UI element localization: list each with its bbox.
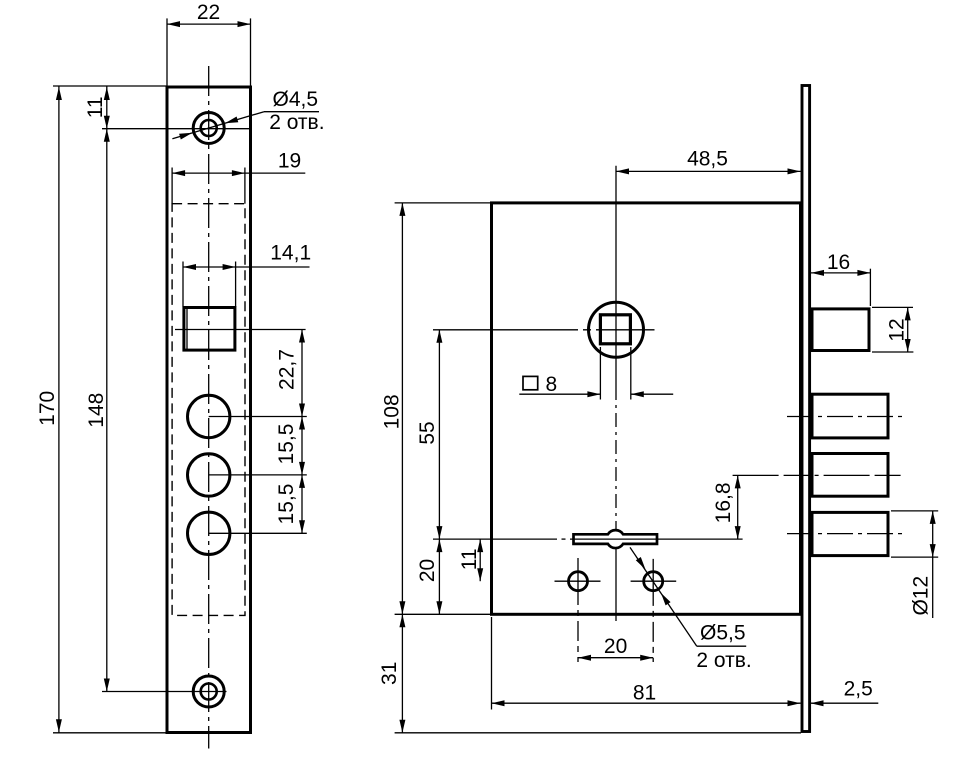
dim 81 line	[492, 702, 801, 704]
dim diameter 12 extension lines	[891, 510, 938, 512]
latch bevel line	[186, 308, 188, 350]
dim 19 extension lines	[171, 168, 173, 204]
svg-text:31: 31	[378, 662, 401, 685]
svg-text:Ø5,5: Ø5,5	[700, 622, 746, 645]
dim 170 bottom extension	[53, 732, 167, 734]
bolt hole 2 centerline	[209, 474, 307, 476]
body bottom extension	[395, 613, 490, 615]
dim 170 top extension	[53, 85, 167, 87]
spindle hub circle	[589, 302, 644, 357]
svg-text:20: 20	[604, 635, 627, 658]
top hole horizontal centerline	[102, 128, 251, 130]
dim 148 arrows	[104, 129, 110, 692]
latch bolt side view	[812, 309, 869, 351]
latch cutout square	[184, 308, 235, 351]
deadbolt 1	[812, 394, 888, 438]
svg-text:16: 16	[827, 251, 850, 274]
deadbolt 2	[812, 454, 888, 497]
dim 20 bottom line	[578, 657, 653, 659]
svg-text:22: 22	[197, 1, 220, 24]
deadbolt 3 centerline	[787, 533, 903, 535]
keyhole slot	[574, 530, 658, 548]
square hole extension lines	[599, 347, 601, 400]
vertical centerline of faceplate	[208, 66, 210, 749]
svg-text:2,5: 2,5	[844, 677, 873, 700]
bolt hole circle 2	[188, 454, 230, 496]
dim 31 line	[401, 614, 403, 733]
dim chain 22,7 / 15,5 / 15,5 line	[301, 330, 303, 534]
bolt hole circle 3	[188, 512, 230, 554]
dim 19 line	[172, 172, 305, 174]
dim 55 / 20 shared line	[438, 330, 440, 615]
faceplate outline	[167, 87, 251, 733]
dim 11 / 148 shared dimension line	[106, 86, 108, 692]
svg-text:48,5: 48,5	[687, 148, 728, 171]
dim 16 right extension	[869, 269, 871, 306]
bottom screw hole inner	[201, 684, 217, 700]
dim 14,1 extension lines	[182, 262, 184, 307]
dim 48,5 line	[616, 170, 801, 172]
svg-text:19: 19	[278, 149, 301, 172]
svg-text:2 отв.: 2 отв.	[696, 649, 751, 672]
svg-text:55: 55	[416, 421, 439, 444]
svg-text:Ø4,5: Ø4,5	[273, 88, 319, 111]
top screw hole inner	[201, 120, 217, 136]
dim 16,8 line	[737, 475, 739, 539]
svg-text:11: 11	[458, 548, 481, 570]
top screw hole outer	[193, 113, 224, 144]
svg-text:81: 81	[633, 682, 656, 705]
spindle square hole	[600, 315, 630, 344]
dim 22 extension lines	[166, 18, 168, 85]
dim 81 left extension	[491, 617, 493, 710]
overall bottom extension line	[395, 732, 801, 734]
dim 11 arrows	[104, 87, 110, 129]
dim 108 line	[401, 203, 403, 614]
dim 170 line	[58, 86, 60, 733]
svg-text:8: 8	[546, 373, 558, 396]
leader line diameter 4,5	[172, 112, 264, 139]
left screw hole cross lines	[555, 580, 601, 582]
dim 12 extension lines	[872, 306, 913, 308]
svg-text:15,5: 15,5	[275, 484, 298, 525]
hub horizontal centerline	[433, 329, 655, 331]
svg-text:Ø12: Ø12	[910, 576, 933, 616]
deadbolt 1 centerline	[787, 416, 903, 418]
dim 20 left arrows	[436, 539, 442, 614]
dim 12 line	[907, 307, 909, 352]
right screw hole cross lines	[631, 580, 677, 582]
svg-text:14,1: 14,1	[270, 242, 311, 265]
dim 2,5 line	[811, 702, 879, 704]
hidden lock body outline (dashed)	[172, 204, 245, 616]
dim 22 line	[167, 23, 251, 25]
bolt hole 3 centerline	[209, 532, 307, 534]
svg-text:16,8: 16,8	[712, 482, 735, 523]
centerline through keyhole to bottom	[615, 523, 617, 621]
svg-text:2 отв.: 2 отв.	[269, 111, 324, 134]
lock body outline	[492, 203, 801, 614]
square symbol	[523, 376, 538, 389]
bottom hole horizontal centerline	[102, 691, 227, 693]
deadbolt 2 centerline (extends left as 16,8 extension)	[733, 474, 903, 476]
svg-text:170: 170	[36, 391, 59, 426]
svg-text:15,5: 15,5	[275, 424, 298, 465]
key screw hole left	[569, 572, 588, 591]
latch horizontal centerline	[175, 329, 306, 331]
svg-text:12: 12	[886, 318, 909, 341]
key screw hole right	[644, 572, 663, 591]
dim 16 line	[811, 272, 870, 274]
dim 55 arrows	[436, 330, 442, 539]
bottom screw hole outer	[193, 676, 224, 707]
svg-text:20: 20	[416, 559, 439, 582]
body top extension	[395, 202, 490, 204]
bolt hole circle 1	[188, 395, 230, 437]
svg-text:148: 148	[85, 393, 108, 428]
dim 14,1 line	[183, 266, 310, 268]
dim 11 right line	[479, 539, 481, 581]
faceplate side view	[802, 86, 810, 732]
bolt hole 1 centerline	[209, 416, 307, 418]
leader line diameter 5,5	[630, 547, 697, 646]
centerline between hub and keyhole	[615, 386, 617, 523]
svg-text:22,7: 22,7	[275, 349, 298, 390]
keyhole horizontal centerline	[433, 538, 557, 540]
svg-text:108: 108	[381, 394, 404, 429]
hub vertical centerline / 48,5 extension	[615, 166, 617, 386]
dim 8 line	[519, 393, 600, 395]
deadbolt 3	[812, 512, 888, 555]
dim diameter 12 line	[932, 511, 934, 618]
svg-text:11: 11	[84, 96, 107, 118]
